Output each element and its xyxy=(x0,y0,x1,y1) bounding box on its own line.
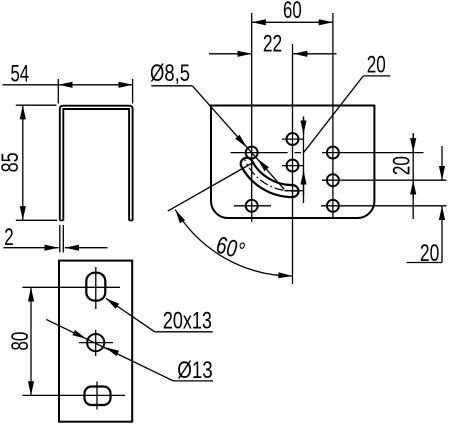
60-deg arc arrowhead right xyxy=(278,272,292,278)
dim 60 line with arrows xyxy=(252,21,333,23)
D8,5 arrowhead upper-left xyxy=(235,135,247,148)
middle hole column centerline (60-deg vertical ray) xyxy=(292,44,294,284)
bottom-right dim 20 shoulder line xyxy=(407,262,443,264)
D13 arrowhead lower-right xyxy=(105,347,119,356)
dim 85 extension line top xyxy=(16,104,57,106)
hole C2 horizontal centerline extended to right dims xyxy=(322,179,447,181)
dim 22 right segment with arrow xyxy=(293,53,336,55)
middle dim 20 vertical line xyxy=(303,117,305,204)
leader 20x13 underline xyxy=(155,331,213,333)
hole C3 horizontal centerline extended to right dims xyxy=(321,205,447,207)
svg-text:Ø8,5: Ø8,5 xyxy=(150,60,190,87)
bottom-right dim 20 upper segment with down arrow xyxy=(441,146,443,180)
bracket plate outline (right top view) xyxy=(211,106,374,219)
right hole column centerline xyxy=(332,13,334,218)
middle dim 20 up arrow xyxy=(303,171,305,197)
dim 54 line with arrows xyxy=(58,84,132,86)
svg-text:20: 20 xyxy=(367,52,386,79)
dim 22 left segment with arrow xyxy=(209,53,252,55)
curved slot (arc slot) outline xyxy=(241,158,299,197)
leader 20x13 with arrow xyxy=(106,298,155,332)
svg-text:80: 80 xyxy=(7,332,34,351)
middle dim 20 down arrow xyxy=(303,117,305,135)
left hole column centerline xyxy=(251,13,253,222)
hole B2 horizontal centerline xyxy=(282,165,303,167)
D8,5 underline xyxy=(151,85,192,87)
dim 2 line right segment with arrow xyxy=(65,247,108,249)
flat plate outline (bottom-left front view) xyxy=(59,261,132,422)
hole C2 right-middle xyxy=(327,174,339,186)
right dim 20 up arrow xyxy=(412,180,414,198)
svg-text:85: 85 xyxy=(0,152,24,172)
slot end horizontal centerline xyxy=(285,190,303,192)
dim 54 extension line left xyxy=(57,79,59,104)
svg-text:60: 60 xyxy=(283,0,302,24)
svg-text:20: 20 xyxy=(420,240,439,267)
curved slot dash-dot centerline arc xyxy=(244,159,299,192)
svg-text:Ø13: Ø13 xyxy=(177,357,213,384)
svg-text:20: 20 xyxy=(389,156,416,175)
dim 80 line with arrows xyxy=(30,287,32,395)
hole A2 left-bottom xyxy=(246,200,258,212)
leader D13 diameter line through hole xyxy=(46,319,173,381)
hole D13 vertical centerline xyxy=(95,330,97,356)
leader 20 underline xyxy=(363,75,390,77)
leader for middle dim 20 xyxy=(304,76,364,152)
right dim 20 down arrow xyxy=(412,134,414,152)
svg-text:60°: 60° xyxy=(213,232,248,266)
svg-text:2: 2 xyxy=(4,224,13,251)
leader D13 underline xyxy=(173,380,213,382)
svg-text:22: 22 xyxy=(263,30,282,57)
hole C1 right-top xyxy=(327,147,339,159)
leg end caps xyxy=(60,219,133,221)
hole A2 horizontal centerline xyxy=(234,205,271,207)
top slot vertical centerline xyxy=(95,267,97,309)
dim 54 extension line right xyxy=(132,79,134,104)
bottom-right dim 20 lower segment with up arrow xyxy=(441,206,443,263)
dim 85 extension line bottom xyxy=(16,219,57,221)
D8,5 diameter leader line through hole A1 xyxy=(192,86,284,190)
slot horizontal (bottom slot) xyxy=(85,387,111,406)
hole B1 horizontal centerline xyxy=(282,138,303,140)
hole C1 horizontal centerline extended to right dims xyxy=(322,152,424,154)
top slot horizontal centerline / dim 80 top extension xyxy=(22,286,120,288)
hole A1 horizontal centerline xyxy=(231,152,288,154)
hole C3 right-bottom xyxy=(327,200,339,212)
right dim 20 (upper) vertical line xyxy=(412,133,414,219)
hole D13 (middle circle) xyxy=(87,334,104,351)
D13 arrowhead upper-left xyxy=(72,330,86,339)
60-deg inclined ray xyxy=(168,162,254,211)
bottom slot vertical centerline xyxy=(96,382,98,410)
U-channel outline (top-left side view, outer contour) xyxy=(60,106,133,221)
60-deg arc arrowhead left xyxy=(175,210,185,224)
hole A1 centerline dash xyxy=(295,152,302,154)
dim 2 line left segment with arrow xyxy=(4,247,59,249)
bottom slot horizontal centerline / dim 80 bottom extension xyxy=(22,394,125,396)
D8,5 arrowhead lower-right xyxy=(257,159,269,172)
U-channel inner contour xyxy=(63,109,129,221)
hole D13 horizontal centerline xyxy=(79,342,113,344)
60-deg dimension arc xyxy=(175,210,292,276)
svg-text:20x13: 20x13 xyxy=(163,307,212,334)
hole A1 left-top xyxy=(246,147,258,159)
hole B1 middle-top (60-deg vertex) xyxy=(287,133,299,145)
dim 54 shoulder line xyxy=(3,84,59,86)
dim 85 line with arrows xyxy=(22,105,24,220)
slot 20x13 vertical (top slot) xyxy=(86,273,105,301)
hole B2 middle-second xyxy=(287,160,299,172)
dim 2 extension lines (wall lines extended) xyxy=(60,225,64,253)
svg-text:54: 54 xyxy=(10,60,29,87)
